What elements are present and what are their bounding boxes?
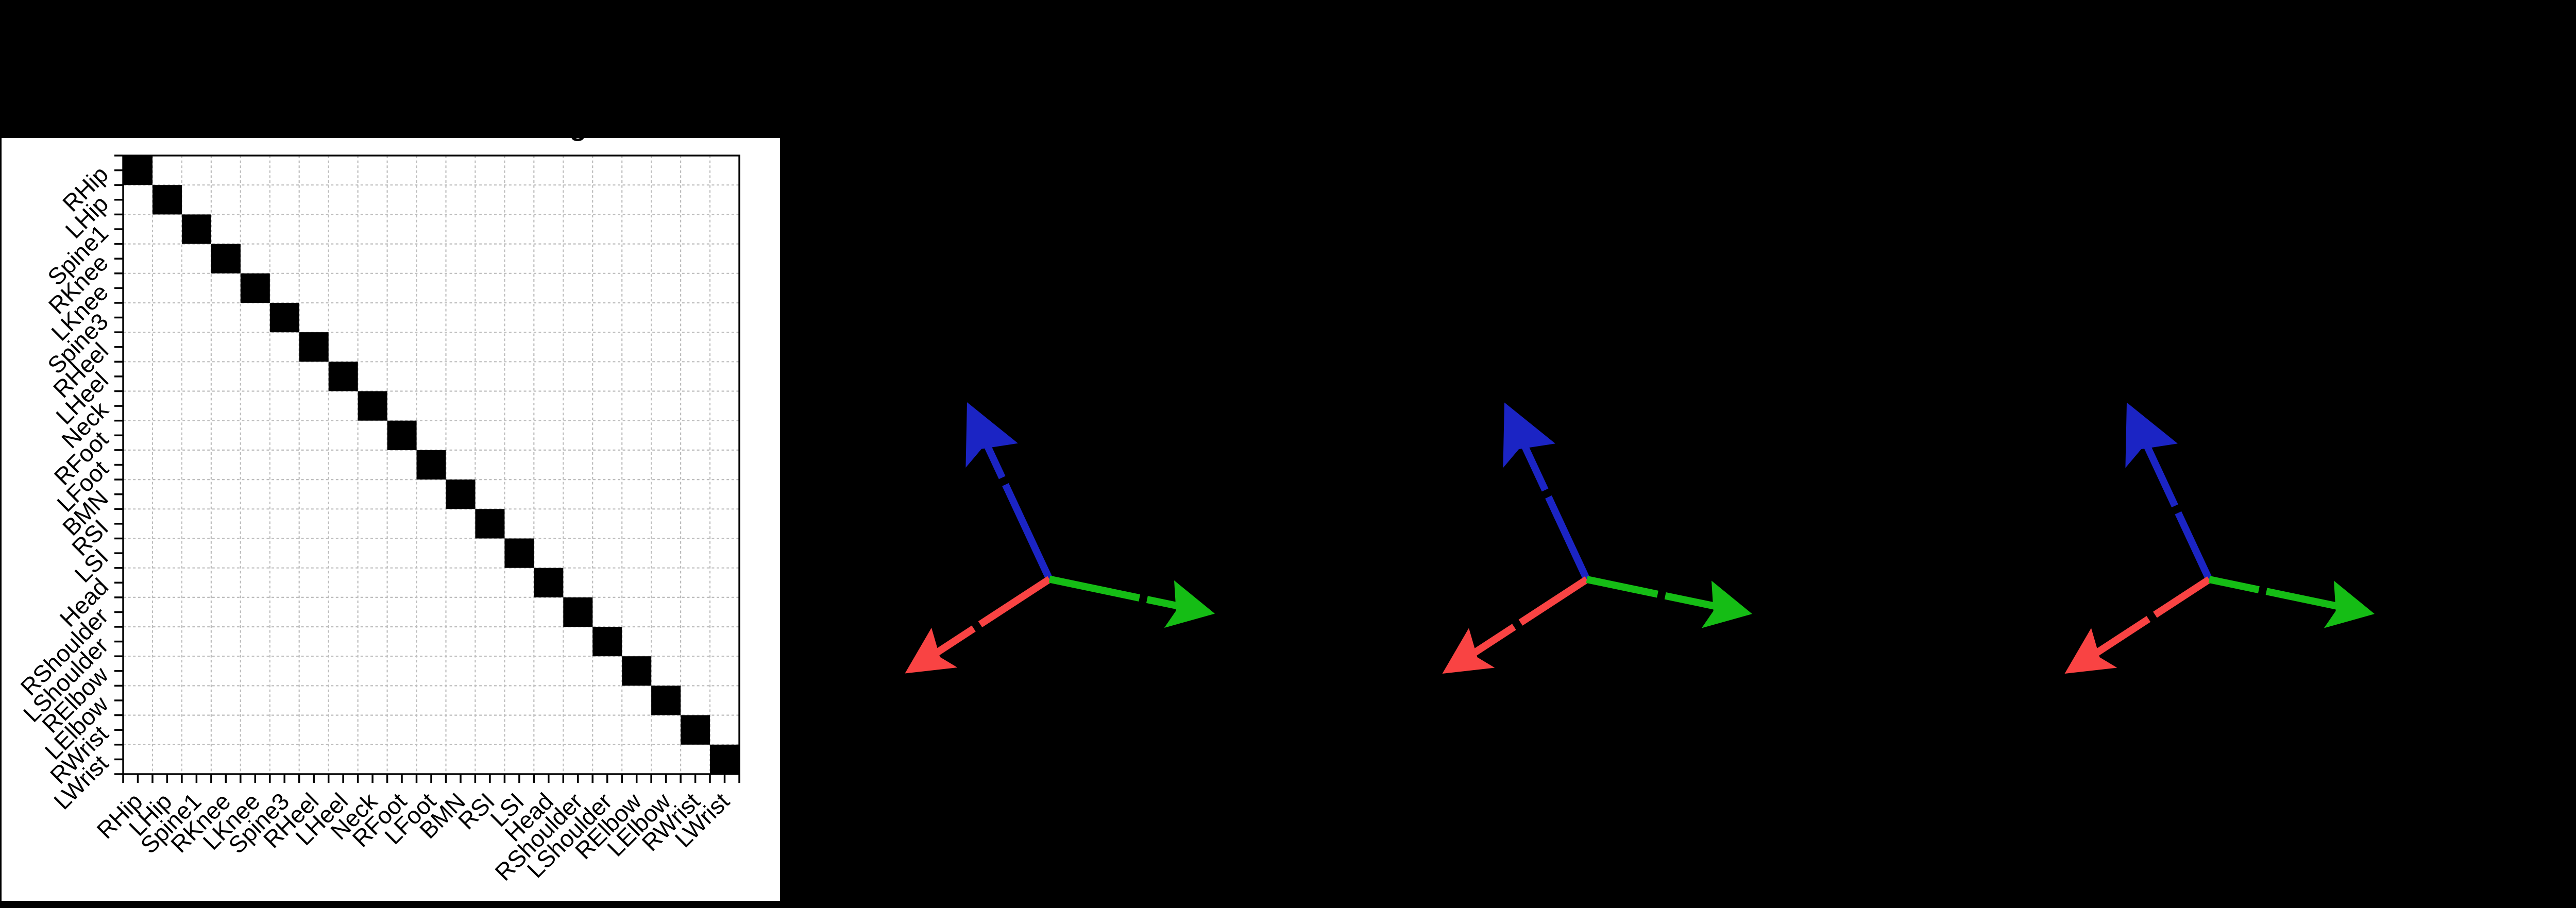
frame 2 green axis arrow (1587, 579, 1752, 628)
diagonal matrix cell RHeel (299, 332, 329, 362)
diagonal matrix cell LShoulder (592, 627, 622, 656)
coordinate frame 1 (origin 2037,1124) (905, 402, 1215, 674)
frame 2 red axis arrow (1443, 579, 1587, 674)
diagonal matrix cell LElbow (651, 686, 681, 715)
diagonal matrix cell RWrist (681, 715, 710, 745)
axis tick marks (114, 156, 739, 783)
dashed gridlines (123, 156, 739, 774)
coordinate frame 2 (origin 3080,1125) (1443, 403, 1753, 674)
diagonal matrix cell RShoulder (563, 597, 592, 627)
frame 1 red axis arrow (905, 579, 1050, 674)
y axis joint labels (15, 161, 114, 815)
axes spines (123, 156, 739, 774)
diagonal matrix cell BMN (446, 479, 476, 509)
diagonal matrix cell Spine1 (182, 214, 211, 244)
svg-text:g: g (570, 111, 587, 142)
diagonal matrix cell LKnee (241, 273, 270, 303)
frame 3 red axis arrow (2065, 579, 2210, 674)
diagonal matrix cell Head (534, 568, 563, 597)
diagonal matrix cell RKnee (211, 244, 241, 273)
diagonal matrix cell LWrist (710, 745, 739, 774)
frame 3 green axis arrow (2209, 579, 2375, 628)
diagonal matrix cell RSI (475, 509, 504, 538)
x axis joint labels (91, 787, 734, 886)
diagonal matrix cell RFoot (387, 421, 417, 450)
diagonal matrix cell LFoot (417, 450, 446, 479)
coordinate frame 3 (origin 4288,1125) (2065, 403, 2375, 674)
diagonal matrix cell LSI (504, 539, 534, 568)
frame 3 blue axis arrow (2125, 403, 2209, 580)
diagonal matrix cell LHip (152, 185, 182, 214)
frame 1 green axis arrow (1049, 579, 1215, 628)
diagonal matrix cell LHeel (329, 362, 358, 391)
diagonal matrix cell Neck (358, 391, 387, 421)
diagonal matrix cell RHip (123, 156, 152, 185)
diagonal matrix cell Spine3 (270, 303, 299, 332)
diagonal matrix cell RElbow (622, 656, 651, 686)
frame 2 blue axis arrow (1503, 403, 1587, 580)
frame 1 blue axis arrow (965, 402, 1049, 579)
white matrix panel background (2, 138, 780, 901)
